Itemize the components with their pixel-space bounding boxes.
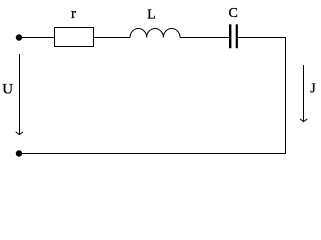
wire: right vertical: [285, 37, 287, 154]
capacitor C right plate: [236, 24, 238, 48]
svg-text:r: r: [71, 6, 76, 22]
capacitor C left plate: [229, 24, 231, 48]
arrow J head: [300, 119, 307, 122]
svg-text:C: C: [229, 6, 238, 21]
wire: top-left terminal to resistor: [19, 37, 54, 39]
svg-text:J: J: [310, 81, 316, 96]
node: bottom-left terminal dot: [16, 150, 22, 156]
wire: bottom horizontal: [19, 153, 286, 155]
svg-text:L: L: [147, 7, 156, 22]
arrow J (current annotation, shaft): [303, 65, 305, 121]
arrow U head: [16, 132, 23, 135]
inductor L: [130, 28, 180, 37]
arrow U (voltage annotation, shaft): [19, 54, 21, 134]
svg-text:U: U: [2, 81, 13, 97]
resistor r: [55, 28, 94, 47]
wire: capacitor to top-right corner: [238, 37, 286, 39]
node: top-left terminal dot: [16, 34, 22, 40]
wire: resistor to inductor: [94, 37, 131, 39]
wire: inductor to capacitor: [180, 37, 230, 39]
